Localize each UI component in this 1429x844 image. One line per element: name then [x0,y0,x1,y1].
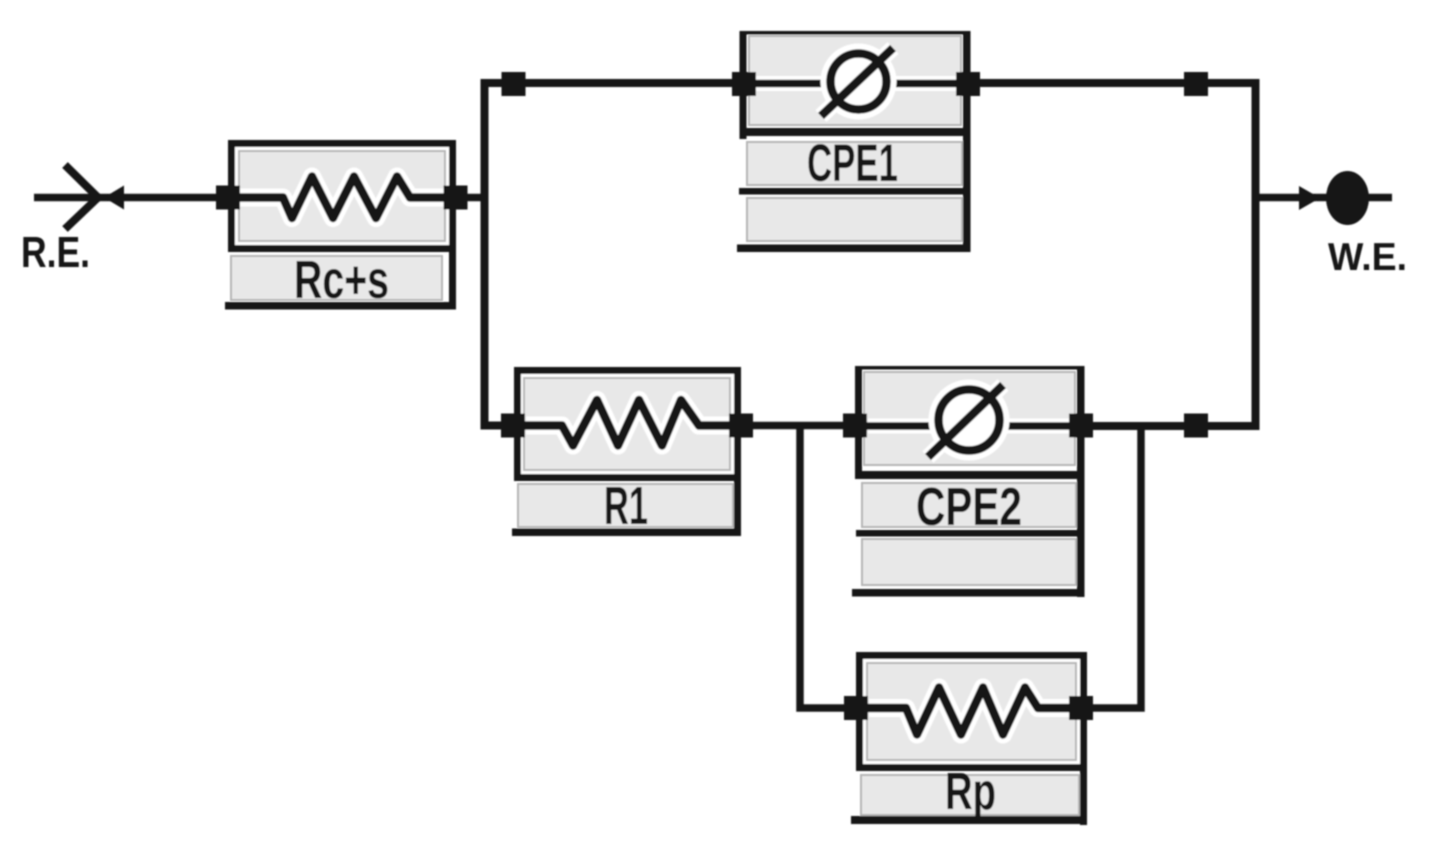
node junction top branch near right bus [1184,72,1208,96]
CPE CPE2 [852,366,1085,597]
node junction at Rc+s right terminal [444,186,468,210]
svg-text:Rp: Rp [945,763,996,821]
svg-text:Rc+s: Rc+s [294,250,389,310]
terminal W.E. electrode dot [1326,171,1369,225]
node junction bottom branch near right bus [1184,414,1208,438]
node junction top branch after corner [502,72,526,96]
node junction at CPE2 right terminal [1069,414,1093,438]
wire R1 to CPE2 [737,422,859,430]
CPE CPE1 [737,31,971,252]
node junction at CPE2 left terminal [843,414,867,438]
wire left vertical bus with top branch start and bottom branch start [485,83,741,426]
node junction at Rp right terminal [1069,696,1093,720]
wire drop from bottom branch down to Rp right [1082,423,1141,708]
svg-text:CPE1: CPE1 [807,134,898,193]
wire W.E. lead [1255,194,1392,202]
svg-text:R1: R1 [604,476,648,536]
node junction at Rc+s left terminal [216,186,240,210]
svg-text:CPE2: CPE2 [916,477,1022,537]
wire R.E. lead [34,194,232,202]
resistor Rc+s [225,144,456,311]
terminal R.E. open arrow [65,165,98,229]
svg-text:R.E.: R.E. [21,228,90,277]
resistor Rp [851,656,1087,826]
svg-text:W.E.: W.E. [1328,236,1407,279]
node junction at Rp left terminal [844,696,868,720]
terminal W.E. arrowhead [1299,186,1320,210]
node junction at R1 right terminal [729,414,753,438]
wire Rc+s to left bus [452,194,484,202]
wire CPE1 to right bus and right bus down to bottom branch [966,83,1256,426]
node junction at CPE1 left terminal [732,72,756,96]
wire drop from bottom branch down to Rp left [800,423,860,708]
resistor R1 [512,371,741,537]
wire top branch to CPE1 [510,79,744,87]
node junction bottom branch at R1 left terminal [501,414,525,438]
node junction at CPE1 right terminal [956,72,980,96]
arrowhead into R.E. wire [104,186,124,210]
